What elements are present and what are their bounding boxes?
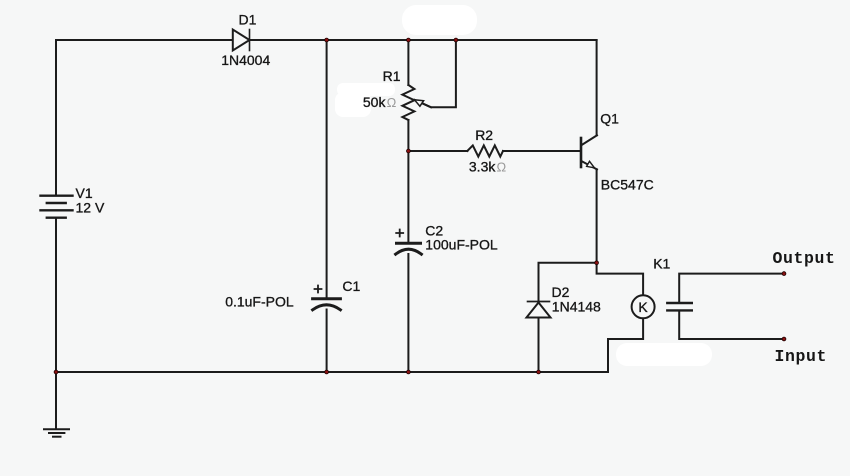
diode D1 (233, 30, 250, 51)
svg-text:R2: R2 (475, 127, 493, 143)
battery V1 (41, 196, 73, 218)
svg-text:Ω: Ω (387, 95, 397, 110)
node: Input terminal (782, 337, 786, 341)
wire R1 branch top (407, 40, 409, 85)
node: emitter junction (595, 261, 599, 265)
svg-text:100uF-POL: 100uF-POL (425, 237, 498, 253)
transistor Q1 (581, 135, 597, 169)
node: R1/R2/C2 junction (407, 149, 411, 153)
resistor R1 (potentiometer) (402, 85, 431, 120)
wire bottom rail (56, 371, 608, 373)
svg-text:Output: Output (773, 249, 836, 268)
svg-text:12 V: 12 V (76, 200, 105, 216)
node: wiper return junction (454, 38, 458, 42)
svg-text:0.1uF-POL: 0.1uF-POL (225, 294, 294, 310)
node: D2 bottom junction (537, 370, 541, 374)
svg-text:K: K (638, 299, 648, 315)
wire C1 branch bottom (326, 310, 328, 373)
svg-text:D1: D1 (239, 12, 257, 28)
relay contact K1 (667, 303, 692, 310)
svg-text:R1: R1 (383, 68, 401, 84)
node: C1 top junction (325, 38, 329, 42)
wire node B to R2 (408, 150, 467, 152)
relay coil K1 (632, 295, 655, 318)
node: Output terminal (782, 272, 786, 276)
svg-text:C1: C1 (342, 278, 360, 294)
node: C2 bottom junction (407, 370, 411, 374)
svg-text:BC547C: BC547C (601, 176, 654, 192)
wire top rail right of D1 (250, 39, 597, 41)
wire R1 wiper return (415, 40, 456, 107)
node: C1 bottom junction (325, 370, 329, 374)
resistor R2 (467, 145, 503, 156)
svg-text:K1: K1 (653, 256, 670, 272)
wire emitter node to D2 (539, 263, 597, 302)
ground (44, 429, 69, 437)
wire relay coil return (608, 318, 643, 372)
wire battery negative to bottom rail (55, 218, 57, 372)
svg-text:Ω: Ω (497, 160, 507, 175)
capacitor C2 (396, 230, 422, 255)
wire relay coil feed (597, 263, 644, 296)
capacitor C1 (313, 286, 341, 310)
wire R1 bottom to C2 (407, 120, 409, 243)
wire relay contact to Output (679, 274, 784, 302)
wire R2 to Q1 base (503, 150, 581, 152)
wire C2 bottom (407, 254, 409, 372)
wire battery positive to top rail (56, 40, 233, 196)
diode D2 (527, 302, 551, 318)
svg-text:Q1: Q1 (600, 111, 619, 127)
wire Q1 collector (596, 40, 598, 135)
wire ground stem (55, 372, 57, 429)
node: R1 top junction (407, 38, 411, 42)
svg-text:3.3k: 3.3k (469, 159, 496, 175)
wire relay contact to Input (679, 312, 784, 340)
svg-text:50k: 50k (363, 94, 387, 110)
svg-text:1N4148: 1N4148 (552, 298, 601, 314)
wire D2 bottom lead (538, 318, 540, 373)
wire C1 branch top (326, 40, 328, 299)
svg-text:Input: Input (775, 347, 828, 366)
node: ground junction (54, 370, 58, 374)
wire Q1 emitter (596, 169, 598, 262)
svg-text:1N4004: 1N4004 (221, 52, 270, 68)
